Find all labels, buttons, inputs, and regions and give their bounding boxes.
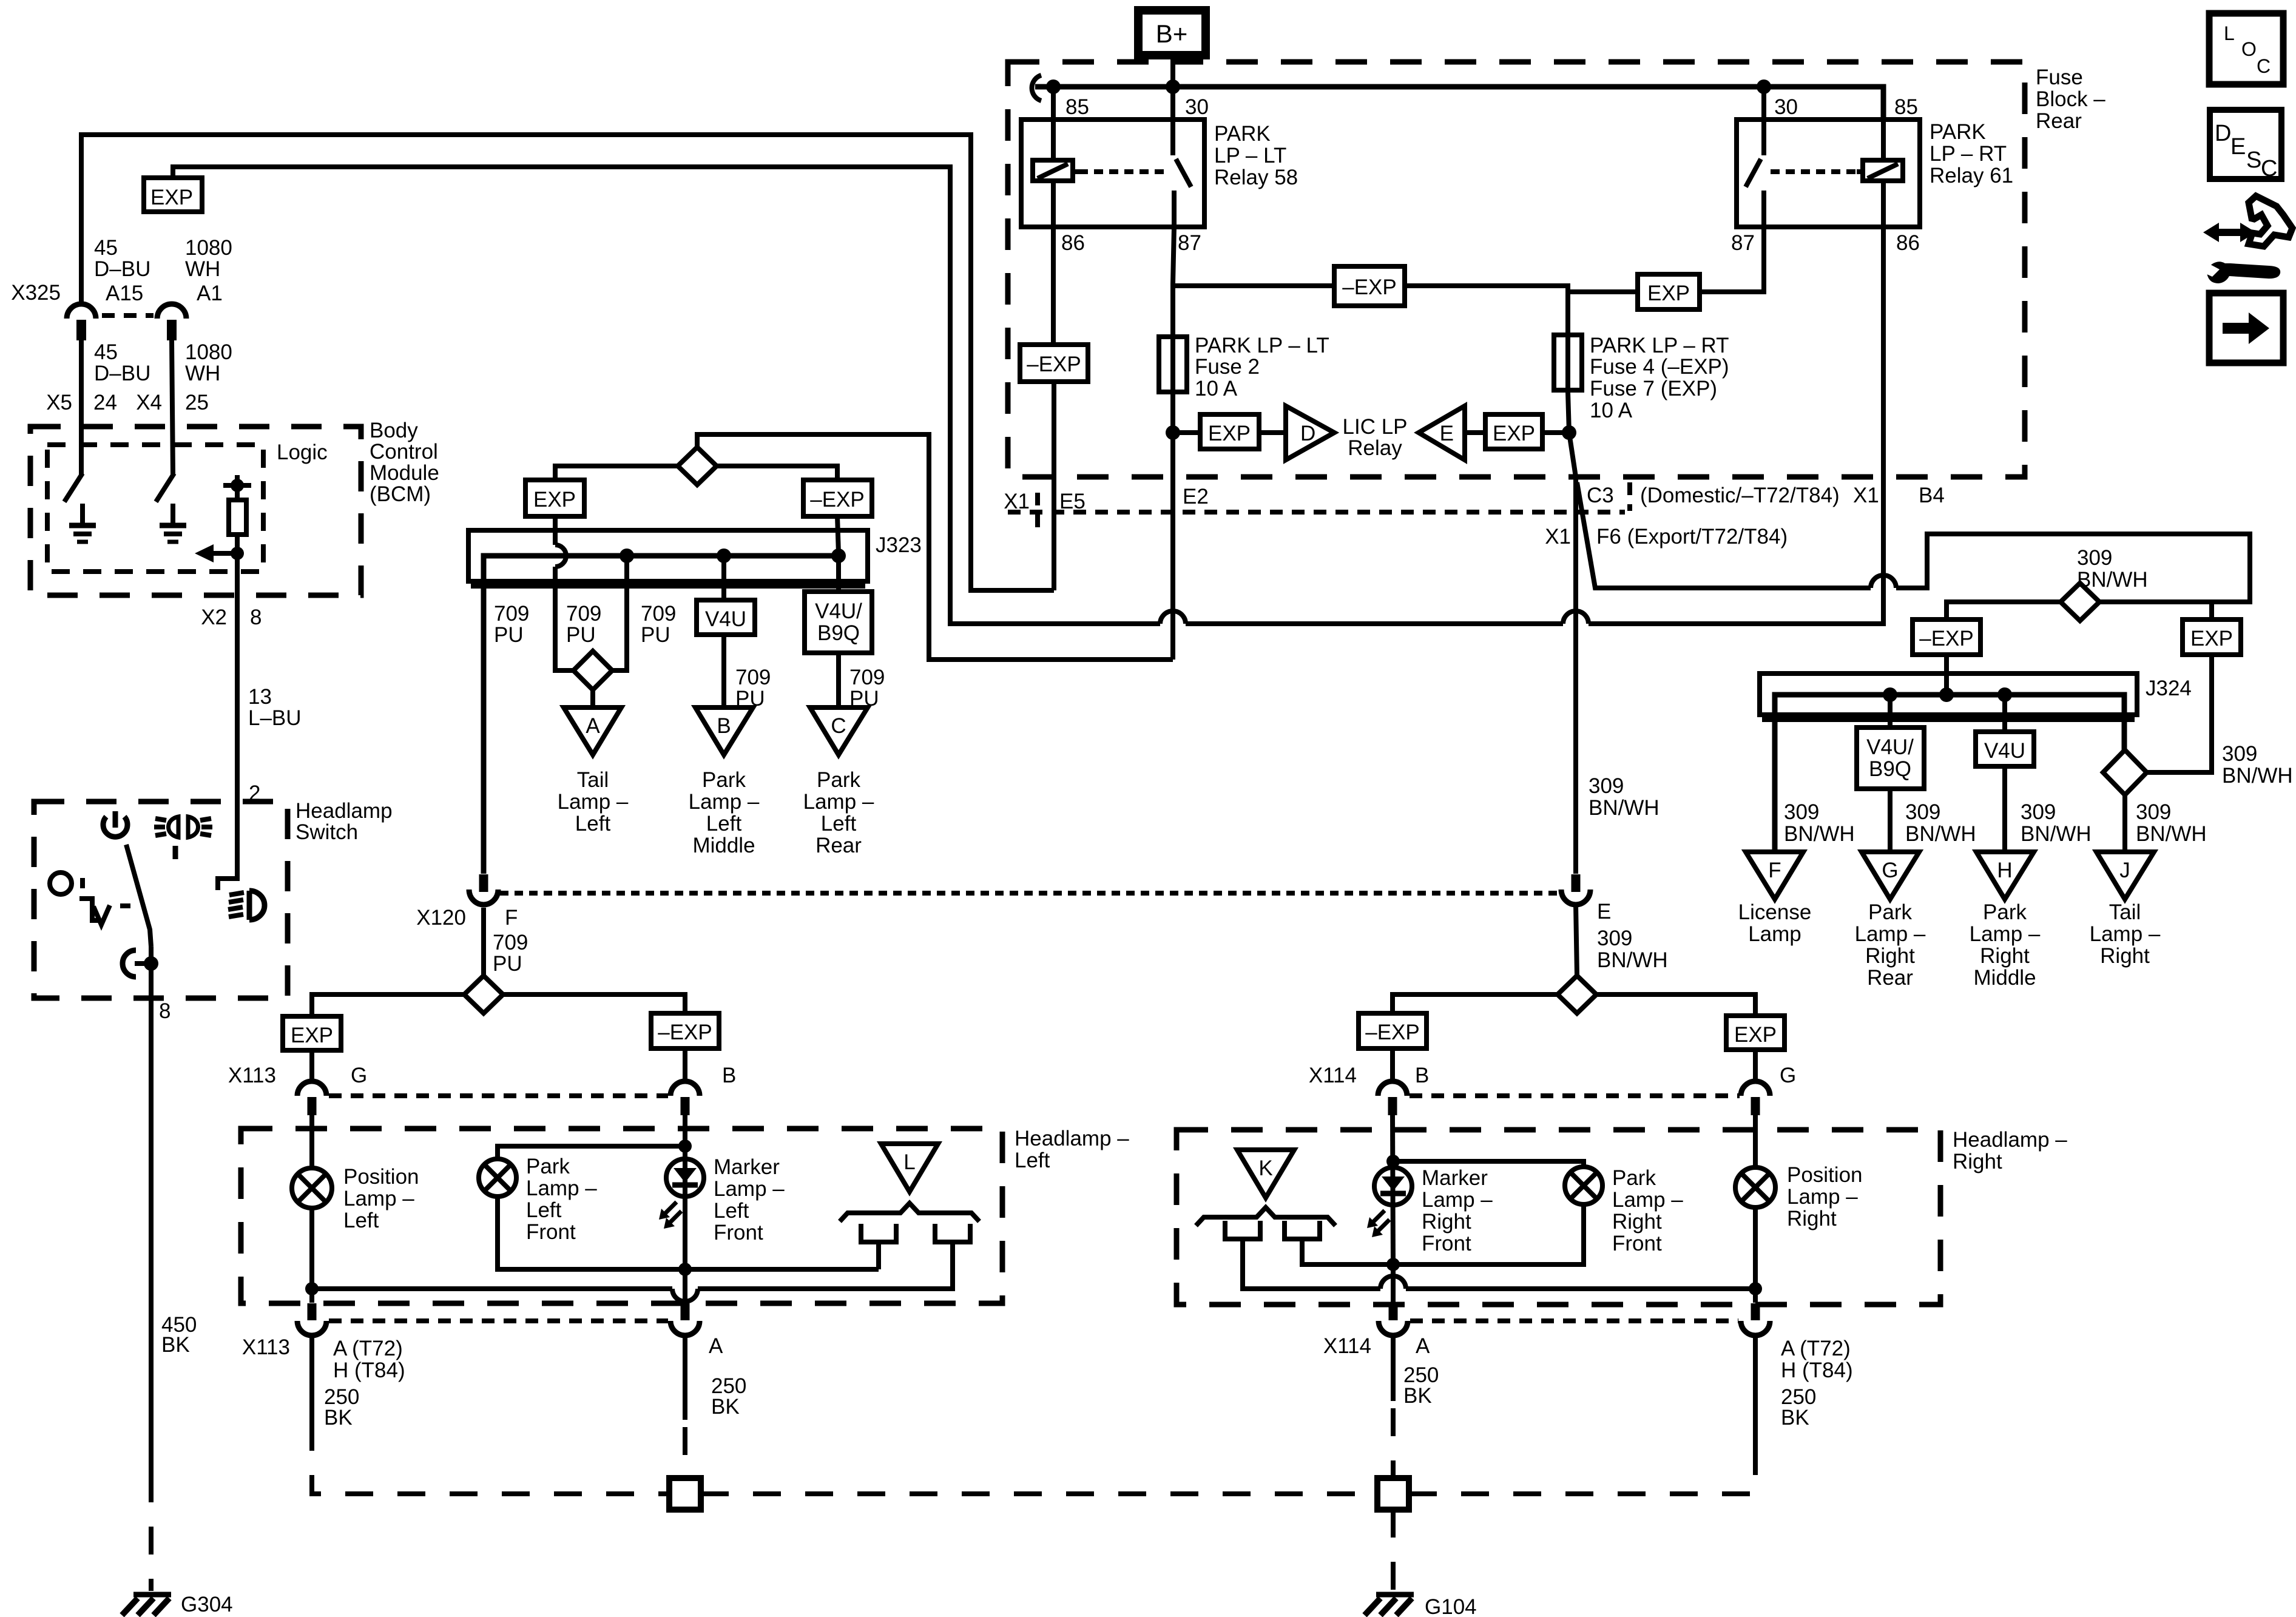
junction dot marker park bus	[678, 1263, 692, 1276]
svg-text:F: F	[1768, 859, 1781, 882]
svg-text:–EXP: –EXP	[810, 488, 865, 511]
svg-text:Park: Park	[702, 768, 746, 792]
svg-text:Lamp –: Lamp –	[714, 1177, 785, 1201]
svg-text:45: 45	[94, 236, 118, 260]
wire -EXP to fuse47 node	[1405, 286, 1568, 335]
triangle C	[810, 707, 868, 755]
svg-text:G104: G104	[1425, 1595, 1477, 1617]
connector X114 G arc and pin	[1741, 1081, 1770, 1115]
svg-text:Left: Left	[821, 812, 857, 836]
svg-text:BK: BK	[1781, 1406, 1809, 1430]
svg-text:Left: Left	[343, 1209, 379, 1232]
wire EXP to fuse47 output	[1542, 430, 1569, 435]
label G row1 right	[1780, 1064, 1796, 1087]
label G304	[181, 1593, 233, 1616]
junction dot marker park bus right	[1386, 1258, 1400, 1271]
wire diamond west to -EXP J324	[1947, 602, 2061, 619]
dashed wire marker right to splice 2	[1391, 1408, 1396, 1478]
BCM arrow left	[195, 544, 237, 562]
wire V4U/B9Q to triangle G	[1888, 789, 1893, 852]
marker lamp left arrows	[659, 1202, 681, 1229]
headlamp left socket 2	[933, 1224, 973, 1242]
svg-text:BN/WH: BN/WH	[2136, 822, 2207, 846]
svg-text:A15: A15	[106, 282, 143, 305]
off position tick	[80, 878, 85, 888]
svg-text:Lamp –: Lamp –	[343, 1187, 414, 1210]
wire B branch east to park lamp right	[1393, 1161, 1584, 1167]
svg-text:BN/WH: BN/WH	[1597, 948, 1668, 972]
dashed row X113 A	[329, 1318, 668, 1323]
marker lamp right arrows	[1367, 1210, 1389, 1237]
wire J324 tap to V4U/B9Q right	[1888, 695, 1893, 727]
fuse 4/7	[1554, 335, 1582, 392]
svg-text:Relay: Relay	[1348, 436, 1402, 460]
junction dot bus tap A	[620, 549, 634, 563]
label Tail Lamp Right	[2090, 900, 2161, 968]
svg-text:J323: J323	[876, 533, 922, 557]
EXP box mid row	[1638, 274, 1700, 309]
svg-text:E5: E5	[1059, 490, 1086, 513]
wire E5 below	[1052, 382, 1056, 590]
svg-text:C: C	[831, 714, 846, 738]
svg-text:X114: X114	[1323, 1334, 1371, 1358]
svg-text:87: 87	[1731, 231, 1755, 255]
svg-text:13: 13	[248, 685, 272, 709]
svg-text:BK: BK	[1403, 1384, 1432, 1408]
wire diamond west to -EXP right	[1393, 994, 1558, 1013]
wire G into headlamp	[309, 1115, 314, 1168]
wire H_a to J324 feed	[1896, 534, 2250, 602]
svg-text:L: L	[903, 1150, 915, 1174]
svg-text:Park: Park	[1612, 1166, 1656, 1190]
svg-text:Right: Right	[1422, 1210, 1471, 1234]
label 85 relay58	[1065, 95, 1089, 119]
svg-text:B+: B+	[1156, 19, 1188, 48]
svg-text:B: B	[1415, 1064, 1429, 1087]
hop EXP wire over J323 bus	[555, 545, 566, 567]
svg-text:X113: X113	[242, 1335, 290, 1359]
V4U box right	[1976, 732, 2034, 766]
J323 bus bar	[484, 556, 845, 874]
service icon car outline	[2249, 196, 2292, 246]
label 85 relay61	[1894, 95, 1918, 119]
label A15	[106, 282, 143, 305]
svg-text:8: 8	[250, 606, 262, 629]
label LIC LP Relay	[1343, 415, 1408, 460]
triangle J	[2096, 852, 2154, 899]
EXP box J324	[2183, 619, 2241, 655]
svg-text:709: 709	[735, 666, 771, 689]
wire park lamp bottom	[498, 1197, 879, 1269]
svg-text:BN/WH: BN/WH	[1784, 822, 1855, 846]
J324 box	[1760, 673, 2137, 720]
diamond splice J324 lower	[2103, 750, 2147, 795]
svg-text:Fuse 2: Fuse 2	[1195, 355, 1260, 379]
headlamp switch dashed box	[34, 802, 288, 998]
svg-text:–EXP: –EXP	[658, 1021, 712, 1044]
svg-text:Marker: Marker	[1422, 1166, 1488, 1190]
svg-text:EXP: EXP	[1647, 282, 1690, 305]
svg-text:Park: Park	[817, 768, 860, 792]
svg-text:Left: Left	[706, 812, 742, 836]
svg-text:PARK LP – RT: PARK LP – RT	[1590, 334, 1729, 357]
label X1 E5	[1004, 490, 1086, 513]
svg-text:BN/WH: BN/WH	[1905, 822, 1976, 846]
svg-text:8: 8	[159, 999, 171, 1023]
BCM ground 2	[160, 504, 186, 542]
relay 61 coil-switch dashed link	[1771, 169, 1857, 174]
svg-text:Right: Right	[1612, 1210, 1662, 1234]
fuse block rear dashed box	[1008, 62, 2025, 477]
label X120	[416, 906, 466, 930]
wire H2 hop over E2 wire	[1160, 611, 1186, 624]
svg-text:G304: G304	[181, 1593, 233, 1616]
label B4	[1919, 484, 1945, 507]
wire -EXP to X114 B	[1390, 1048, 1395, 1082]
ground G104	[1365, 1595, 1414, 1615]
svg-text:30: 30	[1185, 95, 1209, 119]
park icon position tick	[173, 846, 178, 859]
svg-text:A: A	[586, 714, 600, 738]
relay 61 switch 30 wire	[1761, 87, 1766, 155]
wire bus tap to diamond A	[612, 556, 627, 670]
svg-text:A1: A1	[197, 282, 223, 305]
BCM logic dashed box	[47, 445, 263, 572]
wire H1: BCM X5-24 (45 D-BU) to fuse block E5	[81, 135, 1054, 590]
triangle A	[564, 707, 621, 755]
wire EXP row to relay61 87	[1568, 227, 1764, 292]
svg-text:1080: 1080	[185, 340, 232, 364]
svg-text:PU: PU	[493, 952, 522, 976]
V4U/B9Q box	[805, 592, 872, 653]
junction dot bus tap B	[717, 549, 731, 563]
J323 box	[468, 530, 868, 586]
label 309 BN/WH above E	[1589, 774, 1660, 820]
wire socket1 to park bus	[876, 1242, 881, 1269]
wire bus tap to V4U	[721, 556, 726, 600]
svg-text:(Domestic/–T72/T84): (Domestic/–T72/T84)	[1640, 484, 1840, 507]
svg-text:B9Q: B9Q	[817, 621, 860, 645]
connector X113 B arc and pin	[670, 1081, 700, 1115]
svg-text:B4: B4	[1919, 484, 1945, 507]
svg-text:24: 24	[93, 391, 117, 414]
svg-text:G: G	[1780, 1064, 1796, 1087]
EXP box left position	[283, 1016, 341, 1050]
svg-text:Fuse 4 (–EXP): Fuse 4 (–EXP)	[1590, 355, 1729, 379]
svg-text:45: 45	[94, 340, 118, 364]
relay 58 coil feed	[1051, 87, 1056, 160]
label Fuse Block - Rear	[2036, 66, 2105, 133]
wire diamond east to EXP right	[1596, 994, 1755, 1016]
hop ground bus over marker wire	[672, 1289, 698, 1301]
wire triangle E to EXP	[1465, 430, 1485, 435]
svg-text:EXP: EXP	[150, 186, 193, 209]
svg-text:EXP: EXP	[1493, 422, 1535, 445]
label 309 BN/WH right of EXP wire	[2222, 742, 2293, 788]
label 709 PU exp col	[566, 602, 601, 647]
svg-text:V4U: V4U	[705, 607, 746, 631]
wire X113 A left down	[309, 1335, 314, 1423]
junction dot relay58 85	[1046, 79, 1061, 94]
wire diamond east to -EXP	[503, 994, 685, 1013]
ground G304	[122, 1595, 171, 1615]
wire socket2 to park bus right	[1302, 1239, 1393, 1264]
switch blade	[126, 845, 151, 947]
triangle F	[1746, 852, 1803, 899]
svg-text:PU: PU	[641, 623, 670, 647]
label Park Lamp Left Front	[526, 1155, 597, 1244]
svg-text:D–BU: D–BU	[94, 362, 150, 385]
svg-text:Lamp –: Lamp –	[1422, 1188, 1493, 1212]
svg-text:PARK: PARK	[1214, 122, 1271, 146]
resistor in BCM	[229, 485, 246, 551]
wire marker right to X114 A	[1391, 1264, 1396, 1303]
label PARK LP - RT Fuse 4 Fuse 7 10 A	[1590, 334, 1729, 422]
dashed wire X113 A left to splice	[312, 1423, 669, 1494]
svg-text:G: G	[1882, 859, 1898, 882]
relay 58 coil	[1033, 160, 1079, 181]
wire EXP down to diamond lower right	[2147, 655, 2212, 772]
svg-text:EXP: EXP	[1734, 1023, 1777, 1047]
svg-text:309: 309	[1589, 774, 1624, 798]
junction dot position right ground	[1749, 1282, 1762, 1295]
label 30 relay61	[1774, 95, 1798, 119]
label G104	[1425, 1595, 1477, 1617]
dashed ground bus splice2 east	[1409, 1447, 1755, 1494]
EXP box right position	[1726, 1016, 1784, 1050]
dash before blade	[120, 903, 130, 908]
wire switch output 450 BK	[149, 947, 154, 1474]
dashed wire to G304	[149, 1474, 154, 1591]
svg-text:1080: 1080	[185, 236, 232, 260]
svg-text:Position: Position	[1787, 1163, 1863, 1187]
wire EXP to X113 G	[309, 1050, 314, 1082]
headlamp left dashed box	[241, 1129, 1002, 1303]
wire H2 continues to B4	[1589, 181, 1883, 624]
svg-text:O: O	[2241, 38, 2257, 60]
svg-text:D–BU: D–BU	[94, 257, 150, 281]
svg-text:709: 709	[849, 666, 885, 689]
svg-text:30: 30	[1774, 95, 1798, 119]
label Headlamp - Right	[1953, 1128, 2067, 1173]
svg-text:–EXP: –EXP	[1919, 627, 1974, 650]
svg-text:Tail: Tail	[577, 768, 609, 792]
label Position Lamp Left	[343, 1165, 419, 1232]
svg-text:Module: Module	[370, 461, 439, 485]
svg-text:EXP: EXP	[291, 1024, 333, 1047]
label Marker Lamp Left Front	[714, 1155, 785, 1244]
wire socket1 to right ground bus	[1243, 1239, 1380, 1289]
triangle G	[1862, 852, 1919, 899]
bus left end curl	[1032, 75, 1041, 101]
wire E to diamond right	[1576, 905, 1577, 976]
connector X325 A15 arc and pin	[67, 304, 96, 340]
svg-text:S: S	[2246, 147, 2261, 173]
svg-text:V4U: V4U	[1984, 739, 2025, 763]
V4U box	[697, 600, 755, 635]
V4U/B9Q box right	[1857, 727, 1924, 789]
svg-text:–EXP: –EXP	[1342, 275, 1397, 299]
headlamp left socket 1	[859, 1224, 899, 1242]
svg-text:Body: Body	[370, 419, 418, 442]
svg-text:Left: Left	[526, 1198, 562, 1222]
svg-text:E: E	[1440, 422, 1454, 445]
-EXP box right marker	[1359, 1013, 1427, 1048]
label 309 BN/WH top right	[2077, 546, 2148, 592]
wire X325-A15 to BCM switch 1	[79, 340, 84, 474]
BCM ground 1	[69, 504, 96, 542]
label Park Lamp Left Middle	[689, 768, 760, 857]
LOC icon box	[2209, 13, 2283, 84]
diamond splice right headlamp	[1558, 976, 1596, 1013]
connector X114 A marker pin and arc	[1379, 1303, 1408, 1335]
relay 58 switch blade	[1176, 159, 1191, 187]
relay 61 switch blade	[1746, 159, 1761, 187]
svg-text:X4: X4	[136, 391, 162, 414]
label 709 PU below V4UB9Q	[849, 666, 885, 711]
junction dot J324 tap H	[1997, 687, 2012, 702]
label A marker left	[709, 1334, 723, 1358]
svg-text:A (T72): A (T72)	[1781, 1337, 1851, 1360]
diamond splice left headlamp	[464, 976, 503, 1013]
wire diamond A to triangle A	[590, 690, 595, 707]
marker lamp right front LED	[1374, 1115, 1412, 1264]
svg-text:25: 25	[185, 391, 209, 414]
svg-text:309: 309	[2077, 546, 2112, 570]
brace headlamp left	[840, 1203, 979, 1221]
park lamp icon in switch	[154, 817, 212, 837]
triangle E	[1419, 406, 1465, 460]
svg-text:J324: J324	[2146, 677, 2192, 700]
wire relay58 87 to -EXP row	[1173, 227, 1334, 286]
svg-text:F: F	[505, 906, 518, 930]
wire diamond to triangle J	[2122, 795, 2127, 852]
hop H_a over B4 wire	[1871, 575, 1896, 588]
label X325	[11, 281, 61, 305]
DESC icon box	[2210, 110, 2281, 181]
connector X114 A right pin and arc	[1741, 1303, 1770, 1335]
marker lamp left front LED	[666, 1146, 704, 1269]
relay 61 box	[1737, 120, 1920, 227]
svg-text:E2: E2	[1183, 485, 1209, 508]
wire diamond west to EXP	[312, 994, 464, 1016]
fuse block bottom connector row dashes	[1008, 510, 1625, 515]
label X114 row2	[1323, 1334, 1371, 1358]
svg-text:X113: X113	[228, 1064, 276, 1087]
wire H2: BCM X4-25 (1080 WH) EXP to relay 61 coil B4	[173, 167, 1160, 624]
junction dot J324 tap G	[1883, 687, 1897, 702]
svg-text:L: L	[2224, 22, 2235, 44]
svg-text:PARK LP – LT: PARK LP – LT	[1195, 334, 1329, 357]
connector X120 F arc	[469, 890, 498, 905]
svg-text:Lamp –: Lamp –	[526, 1176, 597, 1200]
label 309 BN/WH F col	[1784, 800, 1855, 846]
diamond splice J324 top	[2061, 583, 2099, 621]
svg-text:309: 309	[2136, 800, 2171, 824]
svg-text:X325: X325	[11, 281, 61, 305]
svg-text:10 A: 10 A	[1195, 377, 1238, 400]
svg-text:Tail: Tail	[2109, 900, 2141, 924]
wire fuse47 output C3	[1568, 392, 1576, 874]
splice square 2 G104	[1377, 1478, 1409, 1510]
label 250 BK left	[324, 1385, 359, 1430]
label Tail Lamp Left	[558, 768, 629, 836]
svg-text:LP – RT: LP – RT	[1930, 142, 2007, 166]
svg-text:Relay 61: Relay 61	[1930, 164, 2013, 187]
svg-text:309: 309	[1784, 800, 1819, 824]
svg-text:Right: Right	[1865, 944, 1915, 968]
connector X120 F pin	[479, 874, 488, 892]
EXP box J323	[525, 480, 584, 516]
relay 58 coil-switch dashed link	[1079, 169, 1166, 174]
switch output junction dot	[144, 956, 158, 971]
svg-text:Lamp –: Lamp –	[1612, 1188, 1683, 1212]
label 87 relay58	[1178, 231, 1201, 255]
svg-text:Front: Front	[1612, 1232, 1662, 1255]
wire BCM X2-8 to headlamp switch	[218, 553, 237, 890]
label F	[505, 906, 518, 930]
svg-text:Right: Right	[1953, 1150, 2002, 1173]
fuse 2	[1159, 337, 1187, 392]
svg-text:E: E	[2230, 134, 2246, 160]
svg-text:H (T84): H (T84)	[333, 1359, 405, 1382]
svg-text:C: C	[2257, 55, 2271, 77]
label Park Lamp Left Rear	[803, 768, 874, 857]
junction dot bus -EXP	[831, 549, 846, 563]
label 709 PU below X120	[493, 931, 528, 976]
svg-text:LP – LT: LP – LT	[1214, 144, 1286, 167]
junction dot X114 B branch	[1386, 1155, 1400, 1168]
wire dot to EXP box	[1173, 430, 1200, 435]
svg-text:C: C	[2261, 156, 2277, 181]
ground bus west to position lamp	[312, 1286, 672, 1291]
wire marker to X113 A	[683, 1269, 687, 1303]
label 250 BK marker right	[1403, 1363, 1439, 1408]
svg-text:Front: Front	[1422, 1232, 1471, 1255]
label J323	[876, 533, 922, 557]
svg-text:–EXP: –EXP	[1027, 353, 1081, 376]
label Logic	[277, 441, 328, 464]
relay 61 coil	[1857, 120, 1903, 181]
svg-text:EXP: EXP	[1208, 422, 1251, 445]
svg-text:X120: X120	[416, 906, 466, 930]
svg-text:Right: Right	[2100, 944, 2150, 968]
wire diamond east to EXP J324	[2099, 602, 2212, 619]
label 1080 WH upper	[185, 236, 232, 281]
svg-text:85: 85	[1894, 95, 1918, 119]
svg-text:Park: Park	[526, 1155, 570, 1178]
splice square 1	[669, 1478, 701, 1510]
relay 61 87 stub	[1761, 191, 1766, 227]
hop right ground bus over marker	[1380, 1276, 1406, 1289]
label 309 BN/WH H col	[2021, 800, 2092, 846]
label X113 row1	[228, 1064, 276, 1087]
svg-text:Park: Park	[1868, 900, 1912, 924]
relay 58 switch 30 wire	[1170, 87, 1175, 155]
connector X113 A marker pin and arc	[670, 1303, 700, 1335]
triangle L headlamp left	[881, 1144, 938, 1192]
svg-text:Headlamp –: Headlamp –	[1015, 1127, 1129, 1150]
connector X325 A1 arc and pin	[157, 304, 186, 340]
svg-text:BK: BK	[324, 1406, 353, 1430]
svg-text:X114: X114	[1309, 1064, 1357, 1087]
label 709 PU below V4U	[735, 666, 771, 711]
triangle K headlamp right	[1237, 1150, 1294, 1198]
label Domestic	[1640, 484, 1840, 507]
headlamp right socket 1	[1223, 1221, 1263, 1239]
svg-text:Fuse 7 (EXP): Fuse 7 (EXP)	[1590, 377, 1717, 400]
wire diamond to EXP left	[555, 466, 678, 480]
